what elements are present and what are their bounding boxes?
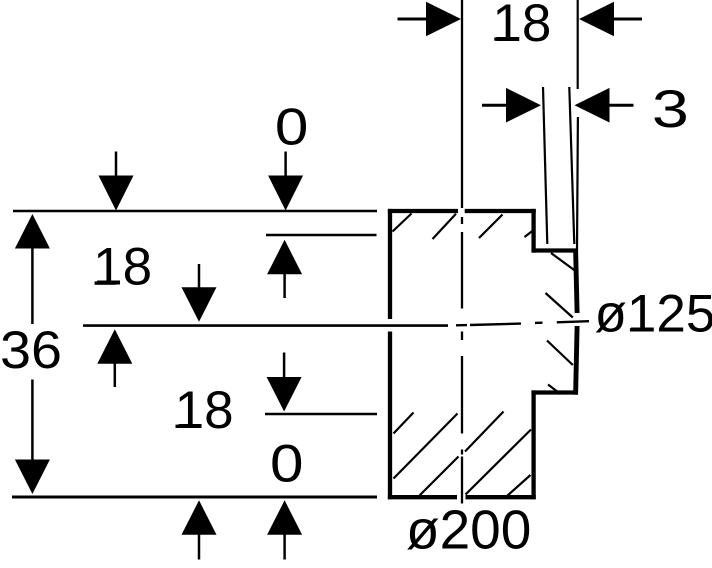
part outline: spigot top edge bbox=[531, 248, 577, 252]
arrow up to L2 at x 285.6 bbox=[267, 240, 302, 298]
dimension 3: left-pointing arrowhead bbox=[575, 88, 610, 123]
svg-text:3: 3 bbox=[652, 80, 689, 139]
hatch line hC bbox=[420, 457, 459, 496]
svg-text:0: 0 bbox=[275, 99, 309, 157]
top reference line L1 (level 0) bbox=[13, 210, 377, 213]
dimension 3 extension line right bbox=[569, 87, 574, 244]
part outline: spigot right edge upper bbox=[576, 249, 578, 313]
hatch line hE2 bbox=[466, 430, 532, 495]
arrow down to L1 at x 116 bbox=[99, 152, 134, 211]
dimension 18 top: right leader bbox=[612, 18, 642, 21]
hatch line h6 spigot bbox=[546, 293, 573, 318]
dimension 18 top: right-pointing arrowhead bbox=[426, 2, 461, 37]
dimension 3 extension line left bbox=[543, 87, 547, 244]
part outline: bottom edge bbox=[388, 495, 536, 499]
dimension 36 vertical line with end arrows bbox=[15, 214, 50, 494]
reference line L4 bbox=[265, 413, 377, 416]
hatch line hA bbox=[394, 413, 414, 434]
svg-text:0: 0 bbox=[270, 435, 304, 494]
dimension 18 top: left leader bbox=[398, 18, 429, 21]
hatch line h3 bbox=[479, 215, 503, 239]
part outline: right lower edge bbox=[531, 390, 535, 499]
hatch line hB bbox=[394, 414, 458, 479]
reference line L2 bbox=[266, 234, 377, 236]
mid reference line L3 bbox=[83, 324, 448, 327]
svg-text:18: 18 bbox=[175, 381, 234, 440]
dimension 18 top: left-pointing arrowhead bbox=[579, 2, 614, 37]
hatch line hE1 bbox=[465, 412, 504, 452]
arrow up to L5 at x 285.6 (level 0 bottom) bbox=[267, 500, 302, 559]
part outline: spigot bottom edge bbox=[531, 390, 577, 394]
dimension 3: right-pointing arrowhead bbox=[506, 88, 541, 123]
hatch line h1 bbox=[393, 214, 412, 232]
svg-text:36: 36 bbox=[0, 321, 62, 380]
hatch line h8 spigot bbox=[548, 385, 561, 395]
extension line right of dimension 18 top bbox=[577, 0, 579, 89]
arrow up to L5 at x 199 bbox=[182, 500, 217, 559]
hatch line hE3 bbox=[508, 475, 531, 496]
part outline: spigot right edge lower bbox=[576, 326, 578, 395]
part outline: top edge bbox=[388, 209, 536, 213]
horizontal centerline / leader to diameter 125 bbox=[456, 321, 589, 325]
hatch line h7 spigot bbox=[547, 341, 573, 366]
arrow down to L3 at x 199 bbox=[182, 264, 217, 322]
arrow up to L3 at x 114.8 bbox=[97, 329, 132, 387]
hatch line h5 spigot bbox=[551, 253, 576, 271]
part outline: step vertical edge bbox=[531, 209, 535, 253]
hatch line h4 bbox=[525, 231, 534, 238]
svg-text:ø200: ø200 bbox=[406, 499, 531, 561]
svg-text:18: 18 bbox=[93, 238, 152, 297]
svg-text:ø125: ø125 bbox=[595, 285, 712, 344]
dimension 3: right leader bbox=[609, 104, 634, 107]
arrow down to L1 at x 285.6 (level 0 top) bbox=[268, 152, 303, 211]
vertical centerline axis bbox=[461, 0, 463, 504]
hatch line h2 bbox=[433, 214, 457, 239]
bottom reference line L5 bbox=[12, 496, 377, 499]
arrow down to L4 at x 284.1 bbox=[267, 353, 302, 412]
dimension 3: left leader bbox=[482, 104, 508, 107]
svg-text:18: 18 bbox=[492, 0, 551, 53]
part outline: left edge bbox=[388, 209, 392, 499]
